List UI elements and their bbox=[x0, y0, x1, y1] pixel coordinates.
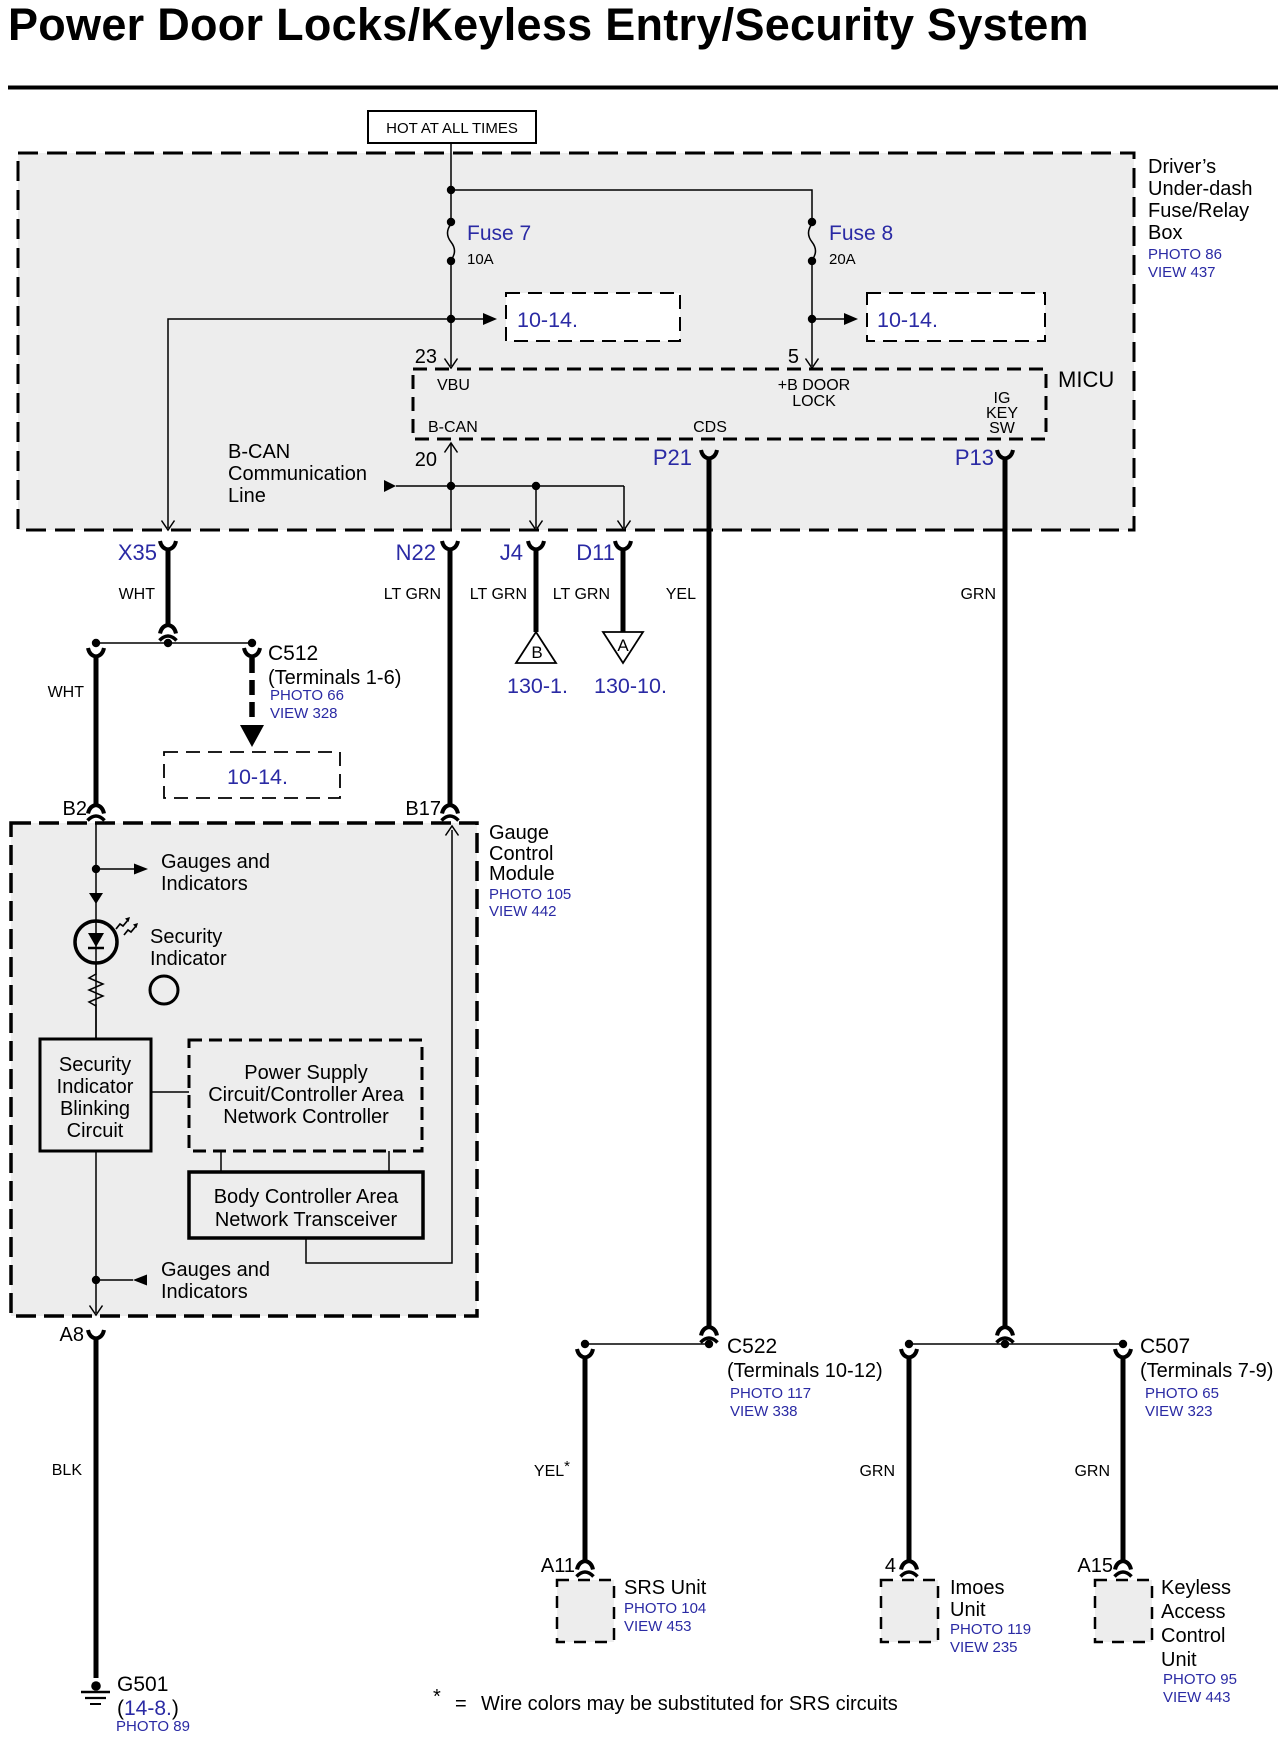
svg-text:VIEW 442: VIEW 442 bbox=[489, 903, 557, 920]
svg-text:Unit: Unit bbox=[950, 1599, 986, 1621]
svg-text:Power Supply: Power Supply bbox=[244, 1062, 367, 1084]
MICU box bbox=[413, 367, 1114, 439]
svg-text:(14-8.): (14-8.) bbox=[117, 1697, 179, 1720]
label: Driver's Under-dash Fuse/Relay Box bbox=[1148, 156, 1253, 281]
svg-text:Unit: Unit bbox=[1161, 1649, 1197, 1671]
svg-text:Wire colors may be substituted: Wire colors may be substituted for SRS c… bbox=[481, 1693, 898, 1715]
node: J4 branch bbox=[532, 482, 540, 490]
wire: resistor to blinking circuit bbox=[95, 1004, 97, 1039]
Body CAN Transceiver box bbox=[189, 1172, 423, 1238]
node: branch below fuse 8 bbox=[808, 315, 816, 323]
svg-text:(Terminals 10-12): (Terminals 10-12) bbox=[727, 1360, 883, 1382]
wire: corner down to D11 bbox=[623, 486, 625, 528]
wire: branch arrow to 10-14 box bbox=[812, 318, 845, 320]
svg-text:WHT: WHT bbox=[48, 684, 85, 701]
svg-text:Control: Control bbox=[1161, 1625, 1225, 1647]
svg-text:LT GRN: LT GRN bbox=[470, 586, 527, 603]
node: branch below fuse 7 bbox=[447, 315, 455, 323]
svg-text:VIEW 437: VIEW 437 bbox=[1148, 264, 1216, 281]
wire: branch arrow to 10-14 box bbox=[451, 318, 484, 320]
svg-text:P21: P21 bbox=[653, 445, 692, 470]
svg-text:N22: N22 bbox=[396, 540, 436, 565]
dashed box 10-14 (left) bbox=[506, 293, 680, 341]
svg-text:Control: Control bbox=[489, 843, 553, 865]
svg-text:10A: 10A bbox=[467, 251, 494, 268]
svg-text:Circuit/Controller Area: Circuit/Controller Area bbox=[208, 1084, 405, 1106]
node: lower gauges branch bbox=[92, 1276, 100, 1284]
svg-text:Fuse/Relay: Fuse/Relay bbox=[1148, 200, 1249, 222]
svg-text:VIEW 235: VIEW 235 bbox=[950, 1639, 1018, 1656]
svg-text:C522: C522 bbox=[727, 1335, 777, 1358]
svg-text:130-10.: 130-10. bbox=[594, 674, 667, 698]
wire: blinking circuit down to A8 bbox=[95, 1151, 97, 1313]
wire: power supply to transceiver right bbox=[388, 1151, 390, 1172]
svg-text:PHOTO 95: PHOTO 95 bbox=[1163, 1671, 1237, 1688]
svg-text:CDS: CDS bbox=[693, 419, 727, 436]
svg-text:20A: 20A bbox=[829, 251, 856, 268]
connector C522 junction bbox=[585, 1343, 709, 1345]
svg-text:C507: C507 bbox=[1140, 1335, 1190, 1358]
dashed box 10-14 (right) bbox=[867, 293, 1045, 341]
svg-text:Security: Security bbox=[150, 926, 222, 948]
svg-text:Box: Box bbox=[1148, 222, 1182, 244]
svg-text:PHOTO 86: PHOTO 86 bbox=[1148, 246, 1222, 263]
svg-text:VIEW 323: VIEW 323 bbox=[1145, 1403, 1213, 1420]
svg-text:Driver’s: Driver’s bbox=[1148, 156, 1216, 178]
wire: branch left to X35 bbox=[168, 319, 451, 528]
svg-text:X35: X35 bbox=[118, 540, 157, 565]
svg-text:D11: D11 bbox=[576, 540, 615, 565]
svg-text:Imoes: Imoes bbox=[950, 1577, 1004, 1599]
svg-text:Indicators: Indicators bbox=[161, 1281, 248, 1303]
svg-text:(Terminals 7-9): (Terminals 7-9) bbox=[1140, 1360, 1273, 1382]
wire: B-CAN comm line bbox=[396, 485, 624, 487]
connector drop to SRS bbox=[577, 1349, 593, 1358]
svg-text:Network Controller: Network Controller bbox=[223, 1106, 389, 1128]
wire WHT down to B2 bbox=[94, 657, 99, 804]
wire: MICU B-CAN pin down to N22 bbox=[450, 443, 452, 529]
connector at A8 bbox=[88, 1330, 104, 1339]
svg-text:+B DOOR: +B DOOR bbox=[778, 377, 850, 394]
svg-text:B-CAN: B-CAN bbox=[428, 419, 478, 436]
svg-text:Gauges and: Gauges and bbox=[161, 851, 270, 873]
title rule bbox=[8, 86, 1278, 90]
connector drop to Imoes bbox=[901, 1349, 917, 1358]
wire LT GRN from D11 bbox=[621, 550, 626, 632]
wire: branch down to J4 bbox=[535, 486, 537, 528]
node: branch to gauges bbox=[92, 865, 100, 873]
svg-text:PHOTO 117: PHOTO 117 bbox=[730, 1385, 811, 1402]
svg-text:VIEW 338: VIEW 338 bbox=[730, 1403, 798, 1420]
svg-text:GRN: GRN bbox=[859, 1463, 895, 1480]
connector at B2 drop bbox=[88, 648, 104, 657]
svg-text:Line: Line bbox=[228, 485, 266, 507]
svg-text:130-1.: 130-1. bbox=[507, 674, 568, 698]
svg-text:VIEW 443: VIEW 443 bbox=[1163, 1689, 1231, 1706]
connector C512 bbox=[244, 648, 260, 657]
Keyless Access Control Unit box bbox=[1095, 1577, 1237, 1706]
wire BLK from A8 to ground bbox=[94, 1339, 99, 1678]
svg-text:J4: J4 bbox=[500, 540, 523, 565]
svg-text:PHOTO 89: PHOTO 89 bbox=[116, 1718, 190, 1735]
wire LT GRN from J4 bbox=[534, 550, 539, 632]
wire: arrow to gauges and indicators bbox=[96, 868, 134, 870]
svg-text:PHOTO 66: PHOTO 66 bbox=[270, 687, 344, 704]
Power Supply Circuit/CAN Controller box bbox=[189, 1040, 422, 1151]
connector drop to Keyless bbox=[1115, 1349, 1131, 1358]
svg-text:LT GRN: LT GRN bbox=[553, 586, 610, 603]
svg-text:LOCK: LOCK bbox=[792, 393, 836, 410]
wire WHT from X35 bbox=[166, 550, 171, 624]
svg-text:Indicators: Indicators bbox=[161, 873, 248, 895]
Driver's Under-dash Fuse/Relay Box (dashed outline, gray fill) bbox=[18, 153, 1134, 530]
svg-text:BLK: BLK bbox=[52, 1462, 83, 1479]
svg-text:A11: A11 bbox=[541, 1555, 575, 1577]
LED security indicator bbox=[75, 917, 138, 963]
svg-text:WHT: WHT bbox=[119, 586, 156, 603]
svg-text:Gauges and: Gauges and bbox=[161, 1259, 270, 1281]
svg-text:LT GRN: LT GRN bbox=[384, 586, 441, 603]
resistor (blinking circuit feed) bbox=[89, 974, 103, 1006]
svg-text:Circuit: Circuit bbox=[67, 1120, 124, 1142]
svg-text:4: 4 bbox=[885, 1555, 896, 1577]
svg-text:Gauge: Gauge bbox=[489, 822, 549, 844]
fuse F7 bbox=[447, 218, 531, 268]
svg-text:Indicator: Indicator bbox=[57, 1076, 134, 1098]
svg-text:PHOTO 105: PHOTO 105 bbox=[489, 886, 571, 903]
wire GRN to Imoes unit bbox=[907, 1358, 912, 1560]
node B: triangle connector B bbox=[516, 632, 556, 663]
svg-text:B17: B17 bbox=[405, 798, 441, 820]
wire: power supply to transceiver left bbox=[220, 1151, 222, 1172]
svg-text:5: 5 bbox=[788, 346, 799, 368]
node: B-CAN junction bbox=[447, 482, 455, 490]
svg-text:23: 23 bbox=[415, 346, 437, 368]
svg-text:Body Controller Area: Body Controller Area bbox=[214, 1186, 399, 1208]
Security Indicator Blinking Circuit box bbox=[40, 1039, 151, 1151]
B-CAN comm line arrow bbox=[384, 480, 396, 492]
svg-text:A8: A8 bbox=[60, 1324, 84, 1346]
SRS Unit box bbox=[557, 1577, 707, 1642]
svg-text:A15: A15 bbox=[1077, 1555, 1113, 1577]
svg-text:Security: Security bbox=[59, 1054, 131, 1076]
wire: HOT box down to fuse 7 bbox=[450, 143, 452, 222]
ground G501 bbox=[81, 1681, 110, 1704]
wire: fuse 7 to MICU pin 23 bbox=[450, 261, 452, 366]
wire: B2 entry down inside module bbox=[95, 823, 97, 1039]
svg-text:B: B bbox=[531, 643, 542, 662]
wire: fuse 8 to MICU pin 5 bbox=[811, 261, 813, 366]
svg-text:B2: B2 bbox=[63, 798, 87, 820]
svg-text:10-14.: 10-14. bbox=[227, 765, 288, 789]
node: junction at top of fuse 7 bbox=[447, 186, 455, 194]
svg-text:Keyless: Keyless bbox=[1161, 1577, 1231, 1599]
arrowhead into MICU pin 23 bbox=[445, 359, 458, 369]
svg-text:SRS Unit: SRS Unit bbox=[624, 1577, 707, 1599]
svg-text:C512: C512 bbox=[268, 642, 318, 665]
svg-text:Blinking: Blinking bbox=[60, 1098, 130, 1120]
svg-text:G501: G501 bbox=[117, 1673, 168, 1696]
Gauge Control Module box bbox=[11, 823, 477, 1316]
svg-text:20: 20 bbox=[415, 449, 437, 471]
wire GRN from P13 down to C507 bbox=[1003, 459, 1008, 1326]
wire: transceiver to B17 bbox=[306, 830, 452, 1263]
svg-text:Network Transceiver: Network Transceiver bbox=[215, 1209, 398, 1231]
svg-text:Communication: Communication bbox=[228, 463, 367, 485]
wire YEL* to SRS unit bbox=[583, 1358, 588, 1560]
svg-text:(Terminals 1-6): (Terminals 1-6) bbox=[268, 667, 401, 689]
svg-text:VBU: VBU bbox=[437, 377, 470, 394]
node A: triangle connector A bbox=[603, 632, 643, 663]
wire: dashed drop from C512 bbox=[249, 658, 255, 724]
svg-text:=: = bbox=[455, 1693, 467, 1715]
wire GRN to Keyless unit bbox=[1121, 1358, 1126, 1560]
svg-text:PHOTO 119: PHOTO 119 bbox=[950, 1621, 1031, 1638]
svg-text:Under-dash: Under-dash bbox=[1148, 178, 1253, 200]
svg-text:PHOTO 104: PHOTO 104 bbox=[624, 1600, 706, 1617]
wire YEL from P21 down to C522 bbox=[707, 459, 712, 1326]
svg-text:MICU: MICU bbox=[1058, 367, 1114, 392]
Imoes Unit box bbox=[881, 1577, 1031, 1656]
svg-text:Module: Module bbox=[489, 863, 555, 885]
svg-text:10-14.: 10-14. bbox=[877, 308, 938, 332]
svg-text:P13: P13 bbox=[955, 445, 994, 470]
node: X35/B2/C512 junction bbox=[96, 642, 252, 644]
svg-text:GRN: GRN bbox=[960, 586, 996, 603]
svg-text:SW: SW bbox=[989, 420, 1016, 437]
indicator lamp circle bbox=[150, 976, 178, 1004]
svg-text:Fuse 7: Fuse 7 bbox=[467, 222, 531, 245]
svg-text:*: * bbox=[433, 1686, 441, 1708]
svg-text:YEL: YEL bbox=[666, 586, 696, 603]
wire: across to fuse 8 bbox=[451, 190, 812, 222]
svg-text:GRN: GRN bbox=[1074, 1463, 1110, 1480]
dashed box 10-14 (C512) bbox=[164, 752, 340, 798]
wire LT GRN from N22 to B17 bbox=[448, 550, 453, 804]
fuse F8 bbox=[808, 218, 893, 268]
arrowhead at X35 exit bbox=[162, 521, 175, 531]
connector C507 junction bbox=[909, 1343, 1123, 1345]
arrowhead into MICU pin 5 bbox=[806, 359, 819, 369]
svg-text:VIEW 453: VIEW 453 bbox=[624, 1618, 692, 1635]
svg-text:Indicator: Indicator bbox=[150, 948, 227, 970]
label: B-CAN Communication Line bbox=[228, 441, 367, 507]
label: Gauge Control Module bbox=[489, 822, 571, 920]
svg-text:A: A bbox=[617, 636, 629, 655]
svg-text:10-14.: 10-14. bbox=[517, 308, 578, 332]
HOT AT ALL TIMES box bbox=[368, 111, 536, 143]
svg-text:VIEW 328: VIEW 328 bbox=[270, 705, 338, 722]
svg-text:PHOTO 65: PHOTO 65 bbox=[1145, 1385, 1219, 1402]
wire direction marker bbox=[89, 893, 103, 904]
svg-text:B-CAN: B-CAN bbox=[228, 441, 290, 463]
svg-text:HOT AT ALL TIMES: HOT AT ALL TIMES bbox=[386, 120, 518, 137]
wire: blinking circuit to power supply bbox=[151, 1091, 189, 1093]
svg-text:Access: Access bbox=[1161, 1601, 1225, 1623]
svg-text:Power Door Locks/Keyless Entry: Power Door Locks/Keyless Entry/Security … bbox=[8, 0, 1089, 50]
wire: LED to resistor bbox=[95, 963, 97, 975]
svg-text:Fuse 8: Fuse 8 bbox=[829, 222, 893, 245]
